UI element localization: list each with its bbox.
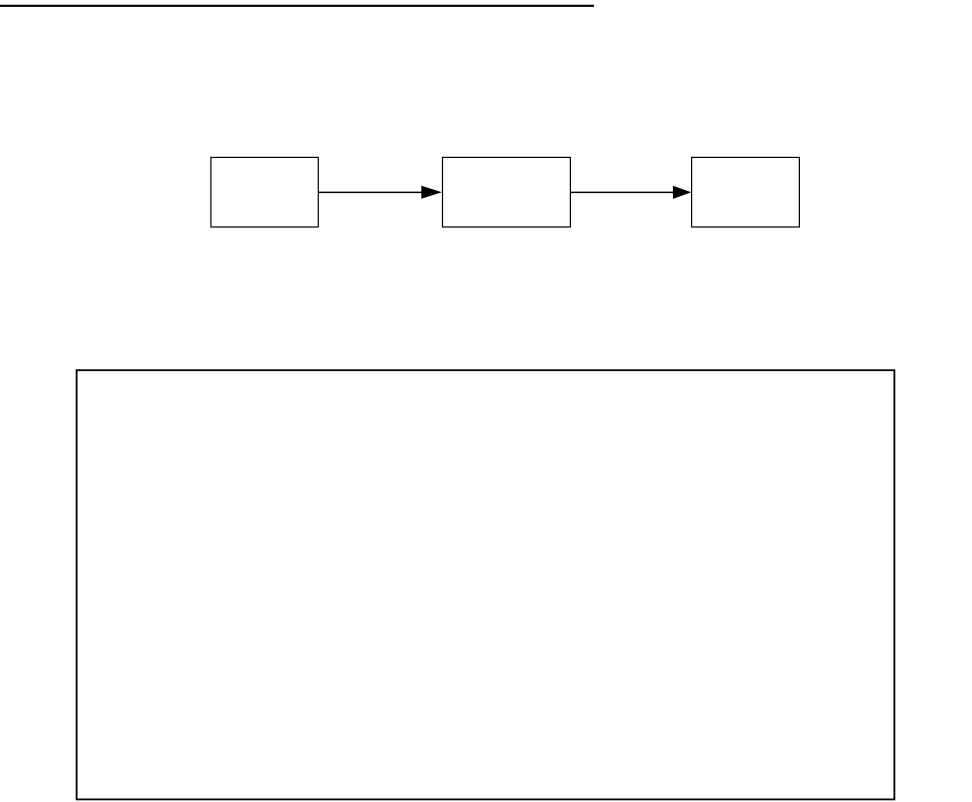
- wire arrow 1: [319, 191, 422, 193]
- header rule: [0, 5, 594, 7]
- wire arrow 2: [571, 191, 674, 193]
- box 3: [692, 157, 800, 227]
- arrowhead 2: [673, 186, 691, 199]
- box 2: [443, 157, 571, 227]
- figure frame: [77, 370, 895, 799]
- box 1: [211, 157, 318, 227]
- arrowhead 1: [421, 186, 442, 199]
